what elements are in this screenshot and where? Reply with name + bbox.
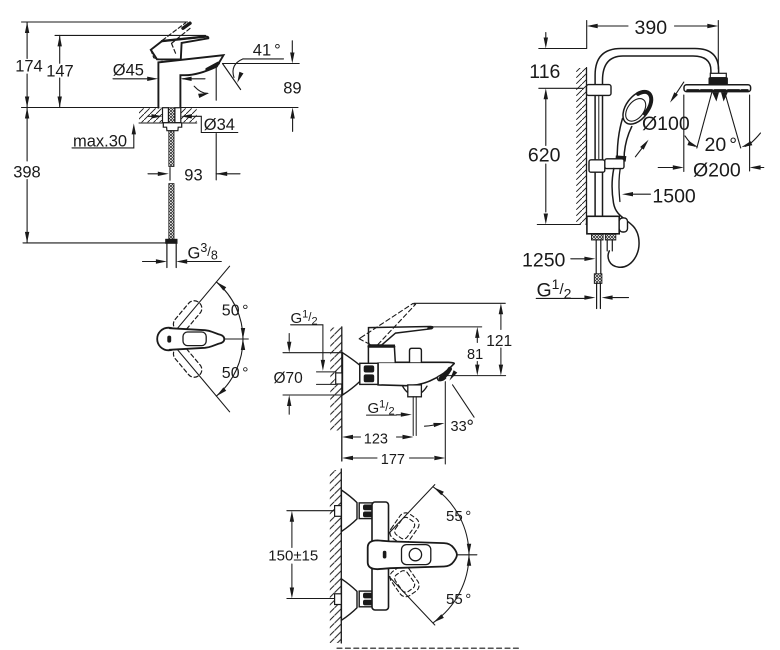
extension line 147 level [55,34,206,36]
supply tube [596,240,601,274]
faucet body and spout [158,55,223,107]
mounting shank through counter [163,108,169,123]
upper wall bracket [587,85,612,96]
spout tip extension line [215,65,217,180]
dim 121 [414,302,505,304]
bottom escutcheon cone [341,579,357,621]
svg-text:41°: 41° [253,41,281,59]
swivel axis line [224,338,248,340]
cartridge dome [368,345,395,362]
svg-text:116: 116 [529,61,560,83]
swivel line up [178,266,230,328]
svg-text:55°: 55° [446,508,471,525]
bottom union nut [359,591,375,607]
dim 33 deg [453,385,475,417]
dim 150±15 [287,511,336,599]
dim Ø200 [684,95,750,172]
indicator dot (front) [383,551,387,559]
dashed lever down 55 [387,563,422,600]
wall section (shower) [576,68,586,225]
dim 147 [59,35,61,107]
dim 390 [598,25,708,27]
svg-text:Ø34: Ø34 [204,116,235,134]
top escutcheon cone [341,490,357,532]
svg-text:147: 147 [46,62,74,80]
dim 1250 [571,258,585,260]
extension line bottom (398 level) [23,242,165,244]
dim 89 [291,41,293,132]
svg-text:150±15: 150±15 [268,547,318,564]
dim 116 [539,33,587,89]
riser pipe and arch [595,49,719,217]
spout beak [441,369,450,379]
handle dashed position down [170,343,204,380]
dim 177 [353,457,434,459]
mixer inlet stub right [605,234,615,240]
spout underbody arch [402,386,427,395]
svg-text:33: 33 [451,419,467,435]
countertop section hatching [139,108,162,122]
dim 81 [432,326,482,328]
svg-text:81: 81 [467,347,483,363]
countertop bottom line [139,122,197,124]
swivel line up (bottom view) [379,485,435,545]
dim 620 [545,99,547,212]
dim G 3/8 [143,261,222,263]
supply ferrule [594,274,602,284]
spout swivel arc [194,86,207,93]
swivel line down [178,350,230,412]
svg-text:174: 174 [15,58,43,76]
handle body circle [157,328,180,351]
extension line head axis (390 right) [717,21,719,70]
lever circle [409,548,421,560]
rain shower head [684,85,751,92]
indicator dot [167,336,171,343]
top union nut [359,503,375,519]
swivel arc lower [216,339,243,396]
svg-text:177: 177 [381,452,405,468]
G3/8 connector tube [167,243,176,267]
G1/2 tail [597,283,601,308]
hand shower holder [605,159,624,169]
handle raised position (dashed) [163,23,192,55]
dim 123 [353,436,403,438]
extension line wall (390 left) [586,21,588,49]
wall line (bottom) [330,470,342,643]
head connector nut [710,73,726,77]
svg-text:G3/8: G3/8 [188,241,218,263]
mixer lever [369,327,433,346]
shower rail glide rod [598,95,600,158]
dashed lever up 55 [387,510,422,547]
handle dashed position up [170,298,204,335]
wall line (middle) [330,328,342,431]
spout angle reference lines [223,64,300,90]
hand shower handle [617,119,632,157]
swivel arc upper (bottom view) [434,487,469,555]
outlet pipe lines [413,397,416,436]
dim Ø100 [635,82,683,157]
G1/2 thread extension lines [317,372,337,385]
handle lever [151,37,209,60]
swivel arc lower (bottom view) [434,555,469,623]
extension line mixer level [537,224,580,226]
svg-text:G1/2: G1/2 [368,398,395,417]
hand shower connector nut [616,156,626,161]
extension line top (174 level) [22,21,188,23]
hose stub to mixer [607,240,612,251]
mixer body (front) [372,502,389,610]
svg-text:1250: 1250 [522,250,566,272]
dim 1500 [633,193,650,195]
handle lever top view [170,328,225,350]
mixer body [378,362,454,385]
svg-text:50°: 50° [222,365,249,382]
braided supply hose lower [169,184,174,240]
swivel arc upper [216,282,243,339]
swivel axis line right [452,554,477,556]
spray cone dashed lines [697,93,741,149]
svg-text:123: 123 [364,431,388,447]
braided supply hose upper [169,131,174,167]
escutcheon cone [343,353,360,395]
svg-text:390: 390 [635,17,668,39]
extension line body axis [445,375,506,377]
extension line spout tip [444,382,446,464]
svg-text:Ø70: Ø70 [274,370,304,387]
mounting nut [163,123,181,131]
shower mixer body [587,216,619,234]
countertop reference line [22,107,299,109]
svg-text:Ø100: Ø100 [642,113,690,135]
union nut [360,363,378,384]
svg-text:620: 620 [528,145,561,167]
aerator slot [207,63,218,69]
diverter knob [410,348,422,362]
lever (front view) [368,540,457,569]
svg-text:Ø45: Ø45 [113,61,144,79]
svg-text:121: 121 [486,333,512,350]
dim 398 [26,108,28,243]
in-wall pipe stub [336,373,342,384]
spout outlet mouth [437,376,446,381]
handle tip mark [183,23,190,28]
dim Ø34 [148,115,151,117]
bottom in-wall stub [335,594,343,605]
lever inner plate [402,545,431,565]
hand shower head [617,86,658,130]
svg-text:93: 93 [184,167,202,185]
svg-text:50°: 50° [222,302,249,319]
swivel line down (bottom view) [379,565,435,625]
lever inner face [183,332,206,346]
svg-text:Ø200: Ø200 [693,159,741,181]
svg-text:1500: 1500 [652,185,696,207]
top in-wall stub [335,506,343,517]
dim 20 deg [685,133,761,146]
shower outlet stub [408,385,422,397]
svg-text:20°: 20° [705,134,738,156]
svg-text:G1/2: G1/2 [537,276,572,302]
dim 93 [148,168,240,181]
svg-text:55°: 55° [446,591,471,608]
hose ferrule [166,239,178,243]
lever dashed raised position [359,304,415,345]
dim 174 [26,22,28,108]
mixer inlet stub left [592,234,604,240]
bottom crop dashes [337,647,520,649]
svg-text:89: 89 [283,80,301,98]
svg-text:398: 398 [13,164,41,182]
spray shading [712,92,728,101]
shower hose [608,169,639,268]
